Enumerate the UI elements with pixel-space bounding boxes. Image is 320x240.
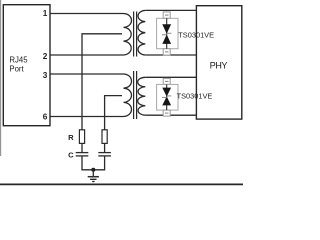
TVS diode D1 bottom pin mark <box>165 51 169 53</box>
transformer T2 secondary winding <box>138 77 146 115</box>
wire T2 secondary bottom to PHY <box>145 114 196 116</box>
TVS diode D2 bidirectional symbol <box>162 88 171 106</box>
TVS diode D1 bottom terminal pad <box>163 49 170 55</box>
TVS diode D1 top terminal pad <box>163 12 170 18</box>
wire junction to ground <box>92 170 94 177</box>
TVS diode D1 lead <box>166 18 168 48</box>
wire T1 secondary bottom to PHY <box>145 54 196 56</box>
TVS diode D1 top pin mark <box>165 14 169 16</box>
svg-text:1: 1 <box>43 9 48 18</box>
wire T2 center tap down to resistor <box>105 96 122 130</box>
wire RJ45 pin3 to T2 primary top <box>50 73 122 75</box>
svg-text:RJ45: RJ45 <box>9 56 28 65</box>
TVS diode D2 top terminal pad <box>163 78 170 84</box>
transformer T1 primary winding <box>122 14 132 56</box>
wire T1 secondary top to PHY <box>145 9 196 11</box>
svg-text:Port: Port <box>9 65 24 74</box>
svg-text:6: 6 <box>43 113 48 122</box>
wire capacitors to ground bus <box>82 156 105 170</box>
svg-text:3: 3 <box>43 71 48 80</box>
capacitor right <box>98 153 111 156</box>
capacitor C (left) <box>76 153 89 156</box>
transformer T1 core <box>134 12 137 57</box>
label RJ45 Port <box>9 56 28 74</box>
svg-text:PHY: PHY <box>210 61 228 71</box>
transformer T2 core <box>134 71 137 119</box>
wire T2 secondary top to PHY <box>145 76 196 78</box>
TVS diode D1 bidirectional symbol <box>162 24 171 44</box>
TVS diode D2 top pin mark <box>165 80 169 82</box>
resistor right <box>102 130 107 144</box>
junction dot <box>91 168 95 172</box>
ground <box>88 177 99 182</box>
RJ45 connector J1 <box>3 5 50 126</box>
wire RJ45 pin1 to T1 primary top <box>50 13 122 15</box>
wire R left to capacitor C <box>81 143 83 152</box>
TVS diode D2 package body <box>157 84 178 110</box>
svg-text:TS0301VE: TS0301VE <box>177 92 213 101</box>
wire RJ45 pin6 to T2 primary bottom <box>50 116 122 118</box>
TVS diode D2 lead <box>166 84 168 110</box>
wire T1 center tap down to resistor R <box>82 34 122 130</box>
wire RJ45 pin2 to T1 primary bottom <box>50 54 122 56</box>
resistor R (left) <box>79 130 84 144</box>
TVS diode D2 bottom pin mark <box>165 112 169 114</box>
frame bottom border <box>0 183 243 185</box>
frame left border <box>0 0 2 156</box>
transformer T2 primary winding <box>122 74 132 117</box>
wire R right to capacitor <box>104 143 106 152</box>
TVS diode D1 package body <box>157 18 178 48</box>
TVS diode D2 bottom terminal pad <box>163 110 170 116</box>
PHY chip U1 <box>196 6 241 119</box>
svg-text:C: C <box>68 150 74 159</box>
svg-text:2: 2 <box>43 52 48 61</box>
svg-text:R: R <box>68 133 74 142</box>
transformer T1 secondary winding <box>138 10 145 55</box>
